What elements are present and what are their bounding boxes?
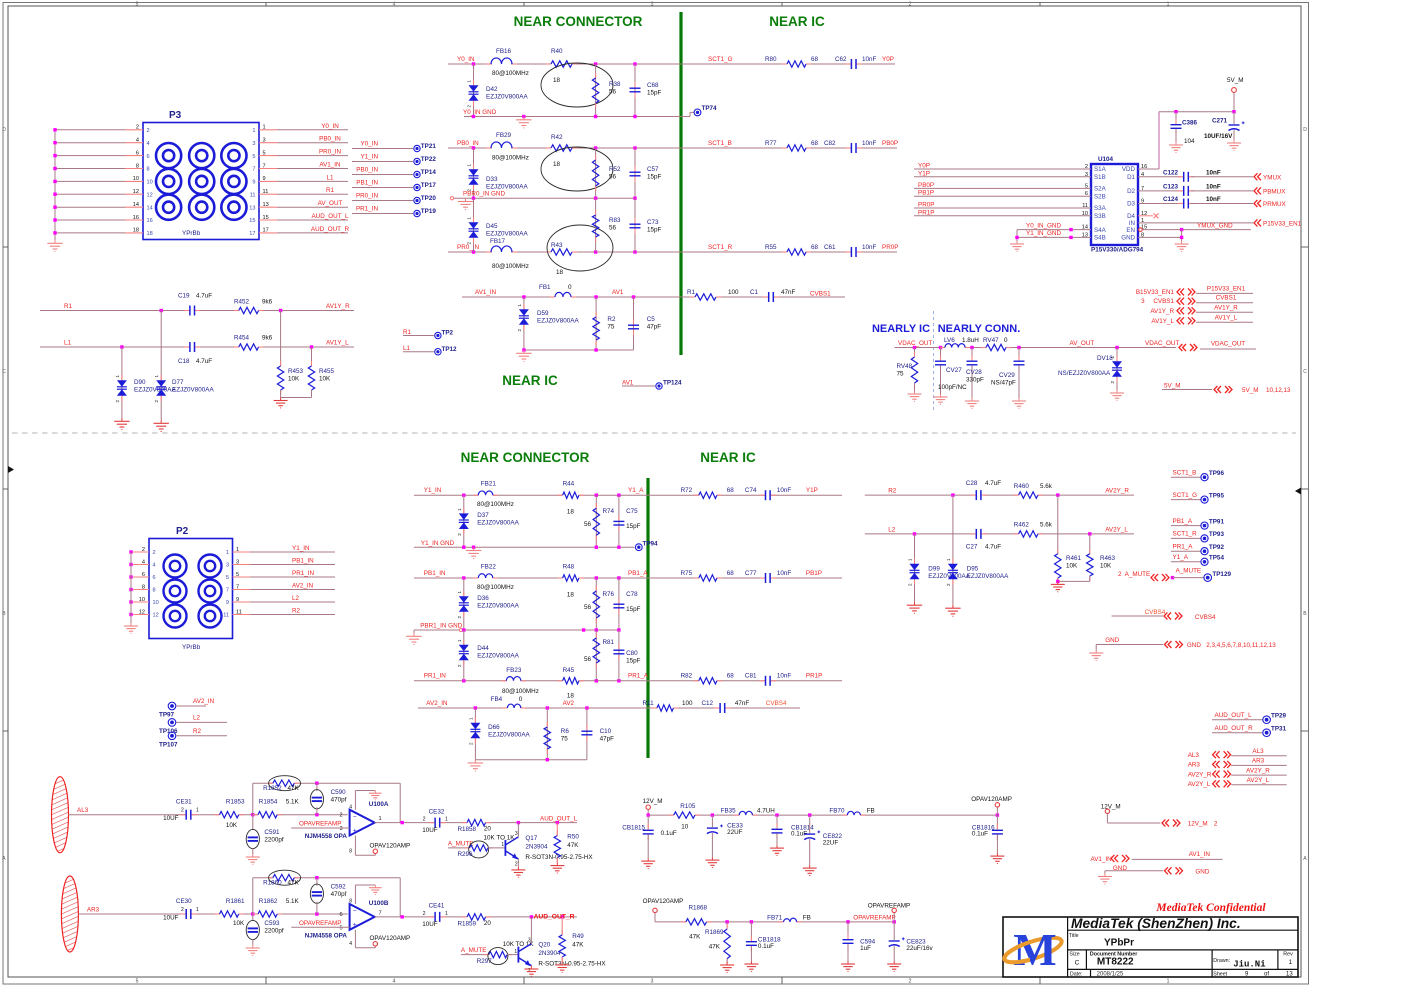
capacitor C10	[581, 708, 614, 760]
svg-text:4: 4	[136, 138, 139, 144]
net 5V_M off-page row	[1162, 383, 1291, 395]
diode D36	[457, 578, 520, 630]
off-page connector 12V_M	[1162, 820, 1218, 828]
svg-text:PB1P: PB1P	[918, 190, 934, 197]
resistor R1869	[705, 922, 730, 964]
svg-text:AV1_IN: AV1_IN	[1091, 856, 1113, 863]
svg-text:4: 4	[393, 1, 396, 7]
svg-text:R463: R463	[1100, 555, 1116, 562]
svg-text:1uF: 1uF	[860, 945, 871, 952]
svg-text:TP19: TP19	[421, 208, 437, 215]
section header NEAR IC (middle)	[502, 373, 558, 388]
svg-text:−: −	[353, 813, 357, 820]
svg-text:6: 6	[147, 154, 150, 160]
svg-text:TP93: TP93	[1209, 531, 1225, 538]
MediaTek Confidential notice	[1155, 902, 1266, 914]
resistor R83	[592, 198, 621, 252]
resistor RV48	[897, 348, 918, 392]
svg-text:D90: D90	[134, 379, 146, 386]
svg-text:C77: C77	[745, 570, 757, 577]
svg-text:FB70: FB70	[829, 808, 845, 815]
svg-text:5: 5	[263, 150, 266, 156]
net AV1_IN wire	[462, 289, 845, 299]
ground (DV18)	[1110, 390, 1124, 400]
svg-text:1: 1	[196, 808, 199, 814]
P2 left pin stubs and bus to ground	[129, 547, 158, 623]
svg-text:L2: L2	[888, 526, 896, 533]
capacitor CB1814	[772, 815, 815, 845]
svg-text:FB35: FB35	[721, 808, 737, 815]
svg-text:C68: C68	[647, 82, 659, 89]
svg-text:10nF: 10nF	[862, 244, 877, 251]
svg-text:D42: D42	[486, 86, 498, 93]
svg-text:Size: Size	[1069, 952, 1079, 958]
section header NEAR CONNECTOR (bottom)	[461, 450, 590, 465]
svg-text:2: 2	[423, 817, 426, 823]
svg-text:AV2_IN: AV2_IN	[193, 698, 215, 705]
ground (AV2 rail)	[468, 760, 483, 771]
svg-text:YMUX_GND: YMUX_GND	[1197, 222, 1233, 229]
svg-text:PB0_IN: PB0_IN	[356, 167, 378, 174]
svg-text:TP31: TP31	[1271, 726, 1287, 733]
svg-text:FB23: FB23	[506, 667, 522, 674]
resistor R38	[592, 64, 621, 117]
resistor R44	[558, 481, 584, 516]
svg-text:C591: C591	[264, 829, 280, 836]
ferrite bead FB71	[767, 915, 811, 922]
svg-text:U100B: U100B	[369, 900, 389, 907]
diode D95	[946, 495, 1009, 605]
svg-text:D45: D45	[486, 223, 498, 230]
svg-text:18: 18	[567, 592, 575, 599]
svg-text:GND: GND	[1195, 868, 1209, 875]
svg-text:10K: 10K	[319, 376, 331, 383]
svg-text:D2: D2	[1127, 188, 1135, 195]
resistor R297 (circled) / net A_MUTE	[461, 941, 535, 965]
zone letters left/right	[2, 127, 1307, 862]
net Y1_IN_GND rail	[414, 540, 635, 549]
svg-text:Rev: Rev	[1283, 952, 1293, 958]
ground (C386)	[1169, 142, 1183, 152]
svg-text:EZJZ0V800AA: EZJZ0V800AA	[486, 231, 528, 238]
svg-text:PR1P: PR1P	[918, 209, 934, 216]
ground (CB1818)	[744, 961, 758, 971]
inductor LV6 1.8uH	[940, 337, 979, 348]
svg-text:AV1_IN: AV1_IN	[1189, 851, 1211, 858]
svg-text:330pF: 330pF	[966, 377, 984, 384]
svg-text:OPAVREFAMP: OPAVREFAMP	[868, 903, 910, 910]
svg-text:6: 6	[136, 150, 139, 156]
svg-text:C: C	[2, 369, 6, 375]
svg-text:TP129: TP129	[1212, 571, 1231, 578]
svg-text:R80: R80	[765, 56, 777, 63]
svg-text:AV2Y_R: AV2Y_R	[1246, 767, 1270, 774]
power symbol 12V_M (legend)	[1101, 803, 1161, 823]
svg-text:C124: C124	[1163, 196, 1179, 203]
svg-text:C: C	[1303, 369, 1307, 375]
svg-text:MT8222: MT8222	[1097, 957, 1134, 968]
svg-text:5V_M: 5V_M	[1227, 77, 1243, 84]
svg-text:AV1: AV1	[612, 289, 624, 296]
svg-text:YPrBb: YPrBb	[182, 230, 201, 237]
svg-text:18: 18	[553, 161, 561, 168]
svg-text:3 CVBS1: 3 CVBS1	[1141, 298, 1174, 305]
svg-text:U100A: U100A	[369, 801, 389, 808]
resistor RV47	[981, 337, 1011, 351]
net GND off-page	[1096, 637, 1276, 650]
svg-text:PRMUX: PRMUX	[1263, 201, 1287, 208]
svg-text:U104: U104	[1098, 156, 1114, 163]
svg-text:of: of	[1264, 972, 1269, 978]
svg-text:10: 10	[681, 824, 689, 831]
test point TP12 (L1)	[403, 345, 457, 355]
net PBR0_IN_GND rail	[450, 191, 636, 200]
svg-text:R1869: R1869	[705, 929, 724, 936]
svg-text:12V_M: 12V_M	[1188, 821, 1208, 828]
ground (R461/R463)	[1051, 581, 1065, 591]
capacitor C27	[966, 529, 1001, 551]
svg-text:4: 4	[393, 979, 396, 985]
svg-text:Y0P: Y0P	[918, 163, 930, 170]
resistor R77	[765, 140, 819, 151]
svg-text:0: 0	[568, 284, 572, 291]
svg-text:16: 16	[147, 218, 153, 224]
svg-text:R1: R1	[326, 187, 335, 194]
svg-text:D37: D37	[477, 512, 489, 519]
svg-text:NEAR CONNECTOR: NEAR CONNECTOR	[461, 450, 590, 465]
svg-text:Y0_IN: Y0_IN	[360, 141, 378, 148]
svg-text:R2: R2	[292, 608, 301, 615]
AV2 bottom rail	[475, 758, 587, 761]
svg-text:47K: 47K	[288, 880, 300, 887]
capacitor CV29	[991, 348, 1025, 399]
resistor R74	[584, 495, 615, 547]
svg-text:EZJZ0V800AA: EZJZ0V800AA	[477, 653, 519, 660]
svg-text:C271: C271	[1212, 118, 1228, 125]
resistor R105	[669, 803, 700, 831]
test point TP14 (PB0_IN)	[352, 167, 436, 178]
svg-text:6: 6	[153, 575, 156, 581]
svg-text:S1B: S1B	[1094, 174, 1106, 181]
svg-text:TP29: TP29	[1271, 713, 1287, 720]
svg-text:R50: R50	[567, 834, 579, 841]
svg-text:8: 8	[349, 899, 352, 905]
ferrite bead FB17	[486, 246, 529, 270]
svg-text:1: 1	[1167, 979, 1170, 985]
svg-text:C12: C12	[702, 700, 714, 707]
ground (C591)	[246, 854, 260, 864]
svg-text:NS/47pF: NS/47pF	[991, 380, 1016, 387]
diode D99	[908, 534, 971, 602]
svg-text:Y1_A: Y1_A	[1173, 554, 1189, 561]
svg-text:C78: C78	[626, 591, 638, 598]
ground (C271)	[1227, 140, 1241, 150]
svg-text:CVBS1: CVBS1	[1216, 295, 1237, 302]
resistor R461	[1055, 495, 1082, 583]
svg-text:AV1_IN: AV1_IN	[319, 162, 341, 169]
svg-text:TP91: TP91	[1209, 518, 1225, 525]
svg-text:4.7uF: 4.7uF	[985, 544, 1001, 551]
svg-text:80@100MHz: 80@100MHz	[502, 688, 539, 695]
svg-text:Sheet: Sheet	[1213, 972, 1227, 978]
net R2 wire (AV2Y_R)	[865, 488, 1134, 497]
svg-text:CE41: CE41	[429, 903, 445, 910]
svg-text:R1861: R1861	[226, 898, 245, 905]
power symbol OPAV120AMP (row 2 left)	[643, 898, 686, 922]
resistor R1 (AV1 row)	[687, 289, 739, 300]
ground (D77)	[154, 420, 169, 431]
capacitor C386	[1171, 112, 1198, 145]
dashed boundary between NEARLY IC and NEARLY CONN	[933, 311, 935, 412]
capacitor C57	[630, 148, 662, 198]
svg-text:PR1_IN: PR1_IN	[424, 673, 447, 680]
svg-text:5: 5	[226, 575, 229, 581]
capacitor CB1815	[622, 815, 677, 858]
test point TP129	[1204, 571, 1232, 581]
resistor R49 (47K pulldown)	[559, 917, 584, 962]
svg-text:56: 56	[584, 656, 592, 663]
svg-text:R462: R462	[1014, 522, 1030, 529]
title block frame	[1003, 917, 1298, 977]
section header NEARLY CONN.	[938, 323, 1021, 335]
resistor R52	[592, 148, 621, 198]
svg-text:R453: R453	[288, 368, 304, 375]
svg-text:68: 68	[811, 244, 819, 251]
svg-text:9k6: 9k6	[262, 335, 273, 342]
svg-text:AR3: AR3	[1252, 758, 1265, 765]
resistor R82	[681, 673, 735, 684]
svg-text:Title: Title	[1069, 933, 1079, 939]
svg-text:CB1815: CB1815	[622, 825, 645, 832]
svg-text:R-SOT3N-0.95-2.75-HX: R-SOT3N-0.95-2.75-HX	[538, 961, 606, 968]
svg-text:10nF: 10nF	[777, 673, 792, 680]
svg-text:9: 9	[236, 597, 239, 603]
test point TP95 (SCT1_G)	[1171, 492, 1225, 503]
svg-text:4: 4	[147, 141, 150, 147]
svg-text:YMUX: YMUX	[1263, 174, 1282, 181]
svg-text:AL3: AL3	[1252, 748, 1264, 755]
resistor R76	[584, 578, 615, 630]
svg-text:OPAVREFAMP: OPAVREFAMP	[299, 821, 341, 828]
svg-text:TP92: TP92	[1209, 544, 1225, 551]
svg-text:R452: R452	[234, 299, 250, 306]
ground (PBR0_IN_GND)	[458, 198, 473, 209]
svg-text:2N3904: 2N3904	[538, 950, 561, 957]
svg-text:DV18: DV18	[1097, 355, 1113, 362]
svg-text:6: 6	[339, 912, 342, 918]
svg-text:R1852: R1852	[263, 785, 282, 792]
svg-text:LV6: LV6	[944, 337, 955, 344]
svg-text:AV1Y_L: AV1Y_L	[326, 340, 349, 347]
resistor R11	[643, 700, 694, 711]
op-amp U100B (NJM4558)	[305, 900, 389, 939]
svg-text:TP54: TP54	[1209, 555, 1225, 562]
svg-text:R82: R82	[681, 673, 693, 680]
svg-text:AL3: AL3	[77, 807, 89, 814]
off-page connector GND (legend)	[1105, 865, 1210, 875]
svg-text:TP14: TP14	[421, 169, 437, 176]
svg-text:AL3: AL3	[1188, 752, 1200, 759]
resistor R72	[681, 487, 735, 498]
svg-text:FB4: FB4	[491, 696, 503, 703]
svg-text:R1: R1	[64, 303, 73, 310]
svg-text:10nF: 10nF	[777, 487, 792, 494]
svg-text:3: 3	[252, 141, 255, 147]
svg-text:PB0_IN: PB0_IN	[319, 136, 341, 143]
svg-text:TP17: TP17	[421, 182, 437, 189]
svg-text:1: 1	[196, 907, 199, 913]
svg-text:0.1uF: 0.1uF	[661, 830, 677, 837]
ferrite bead FB70	[829, 808, 874, 816]
resistor R80	[765, 56, 819, 67]
svg-text:2 A_MUTE: 2 A_MUTE	[1118, 571, 1150, 578]
svg-text:4: 4	[142, 559, 145, 565]
capacitor C123 / net PBMUX	[1138, 184, 1286, 196]
svg-text:TP94: TP94	[643, 541, 659, 548]
svg-text:7: 7	[252, 167, 255, 173]
svg-text:10UF: 10UF	[422, 827, 438, 834]
svg-text:10UF/16V: 10UF/16V	[1204, 133, 1233, 140]
net AV2_IN wire	[418, 700, 800, 710]
svg-text:PR0P: PR0P	[918, 202, 934, 209]
svg-text:D66: D66	[488, 724, 500, 731]
capacitor CE30 (10UF)	[163, 898, 199, 922]
diode D66	[468, 708, 530, 760]
svg-text:Y0_IN: Y0_IN	[457, 56, 475, 63]
svg-text:Date:: Date:	[1070, 972, 1083, 978]
section header NEAR IC (top right)	[769, 14, 825, 29]
svg-text:R1862: R1862	[259, 898, 278, 905]
svg-text:5.1K: 5.1K	[286, 898, 300, 905]
svg-text:Y0_IN GND: Y0_IN GND	[463, 109, 497, 116]
svg-text:22UF: 22UF	[727, 829, 743, 836]
svg-text:AR3: AR3	[87, 907, 100, 914]
capacitor C593 (2200pf, circled)	[246, 914, 284, 945]
capacitor C61	[824, 244, 898, 257]
test point TP54 (Y1_A)	[1171, 554, 1225, 565]
svg-text:4: 4	[349, 804, 352, 810]
svg-text:SCT1_R: SCT1_R	[708, 244, 733, 251]
svg-text:100: 100	[682, 700, 693, 707]
svg-text:TP74: TP74	[702, 105, 718, 112]
resistor R1852 (47K, circled)	[263, 776, 301, 793]
net Y0_IN wire (row 1)	[448, 56, 895, 66]
svg-text:6: 6	[142, 572, 145, 578]
ferrite bead FB35 (4.7UH)	[721, 808, 776, 816]
net Y1_IN wire	[414, 487, 842, 497]
svg-text:10K: 10K	[1100, 563, 1112, 570]
svg-text:3: 3	[236, 559, 239, 565]
svg-text:FB: FB	[867, 808, 875, 815]
svg-text:80@100MHz: 80@100MHz	[492, 70, 529, 77]
svg-text:8: 8	[142, 584, 145, 590]
svg-text:D33: D33	[486, 176, 498, 183]
svg-text:15pF: 15pF	[626, 658, 641, 665]
off-page connector P15V33_EN1	[1136, 285, 1253, 296]
P3 left pin stubs and numbers	[125, 125, 153, 238]
svg-text:R297: R297	[477, 958, 493, 965]
svg-text:56: 56	[609, 225, 617, 232]
svg-text:2: 2	[1214, 821, 1218, 828]
ground (CB1815)	[641, 858, 655, 868]
svg-text:R2: R2	[193, 728, 202, 735]
net Y0_IN_GND rail	[463, 109, 694, 118]
test point TP106 (L2)	[159, 714, 227, 735]
svg-text:C61: C61	[824, 244, 836, 251]
svg-text:2: 2	[142, 547, 145, 553]
svg-text:15pF: 15pF	[626, 606, 641, 613]
ground (D99)	[907, 602, 922, 613]
svg-text:CVBS4: CVBS4	[766, 700, 787, 707]
svg-text:C18: C18	[178, 358, 190, 365]
svg-text:18: 18	[553, 77, 561, 84]
ground (CE823)	[887, 961, 901, 971]
svg-text:AV1Y_R: AV1Y_R	[1214, 304, 1238, 311]
test point TP2 (R1)	[403, 329, 454, 339]
svg-text:PB1_IN: PB1_IN	[356, 180, 378, 187]
P2 right pins with net wires	[223, 545, 335, 619]
svg-text:R460: R460	[1014, 483, 1030, 490]
svg-text:TP2: TP2	[442, 330, 454, 337]
capacitor CE823 (22uF/16v)	[889, 922, 934, 961]
svg-text:D77: D77	[172, 379, 184, 386]
svg-text:15: 15	[263, 215, 269, 221]
svg-text:TP96: TP96	[1209, 470, 1225, 477]
svg-text:D: D	[2, 127, 6, 133]
resistor R452	[234, 299, 273, 314]
svg-text:OPAV120AMP: OPAV120AMP	[643, 898, 684, 905]
svg-text:EZJZ0V800AA: EZJZ0V800AA	[486, 184, 528, 191]
svg-text:PB1P: PB1P	[806, 570, 822, 577]
feedback wire with resistor R1860	[253, 876, 400, 917]
resistor R1861 (10K)	[215, 898, 246, 927]
svg-text:1: 1	[1167, 1, 1170, 7]
svg-text:8: 8	[153, 588, 156, 594]
svg-text:16: 16	[133, 215, 139, 221]
svg-text:AV1Y_R: AV1Y_R	[1150, 308, 1174, 315]
net PR0_IN wire (row 3)	[448, 244, 897, 254]
svg-text:R48: R48	[563, 564, 575, 571]
svg-text:RV47: RV47	[983, 337, 999, 344]
IC U104 (P15V330/ADG794)	[1082, 156, 1147, 254]
svg-text:10: 10	[139, 597, 145, 603]
svg-text:R40: R40	[551, 48, 563, 55]
svg-text:L2: L2	[193, 714, 201, 721]
annotation ellipse around R40/R38	[541, 63, 613, 107]
svg-text:9: 9	[252, 180, 255, 186]
svg-text:10nF: 10nF	[862, 56, 877, 63]
svg-text:B15V33_EN1: B15V33_EN1	[1136, 289, 1175, 296]
svg-text:P15V330/ADG794: P15V330/ADG794	[1091, 247, 1144, 254]
svg-text:2N3904: 2N3904	[525, 843, 548, 850]
resistor R6	[544, 708, 569, 760]
ferrite bead FB21	[473, 481, 514, 509]
test point TP91 (PB1_A)	[1171, 518, 1225, 529]
net VDAC_OUT wire	[895, 340, 1180, 349]
svg-text:5: 5	[136, 1, 139, 7]
svg-text:2,3,4,5,6,7,8,10,11,12,13: 2,3,4,5,6,7,8,10,11,12,13	[1206, 642, 1276, 649]
svg-text:14: 14	[147, 205, 153, 211]
capacitor CB1816	[972, 815, 1003, 853]
svg-text:10nF: 10nF	[1206, 196, 1221, 203]
svg-text:OPAVREFAMP: OPAVREFAMP	[299, 920, 341, 927]
svg-text:PBR0_IN GND: PBR0_IN GND	[463, 191, 505, 198]
svg-text:FB71: FB71	[767, 915, 783, 922]
net OPAV120AMP filter wire	[647, 813, 1000, 816]
svg-text:−: −	[353, 908, 357, 915]
svg-text:AV1Y_L: AV1Y_L	[1151, 318, 1174, 325]
svg-text:PR1_IN: PR1_IN	[292, 570, 315, 577]
